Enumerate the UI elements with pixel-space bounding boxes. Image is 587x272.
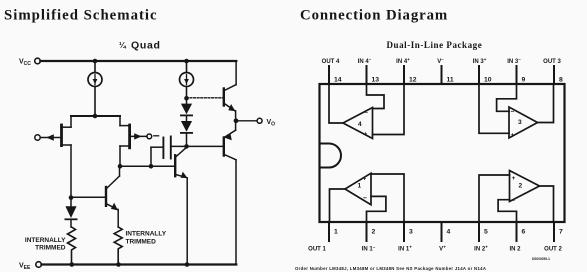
- pin 3 lead: [403, 222, 405, 241]
- svg-text:+: +: [512, 175, 516, 182]
- resistor R2 (internally trimmed): [114, 227, 122, 265]
- svg-text:OUT 2: OUT 2: [544, 247, 562, 253]
- op-amp U1 triangle: [345, 173, 371, 205]
- svg-text:3: 3: [409, 229, 413, 236]
- svg-text:–: –: [364, 110, 368, 117]
- svg-text:IN 1–: IN 1–: [362, 245, 376, 253]
- svg-text:–: –: [511, 109, 515, 116]
- svg-text:11: 11: [447, 77, 454, 84]
- pin 11 lead: [441, 66, 443, 84]
- svg-text:13: 13: [372, 77, 380, 84]
- node: R1-VEE rail junction: [70, 262, 75, 267]
- wire: J1 drain to D3: [70, 145, 72, 198]
- pin 1 lead: [328, 222, 330, 241]
- svg-text:3: 3: [518, 119, 522, 126]
- wire: output to VO terminal: [236, 120, 257, 122]
- svg-text:OUT 1: OUT 1: [308, 247, 326, 253]
- svg-text:–: –: [511, 198, 515, 205]
- svg-text:Dual-In-Line Package: Dual-In-Line Package: [387, 40, 483, 50]
- capacitor C1 (compensation): [151, 137, 171, 167]
- wire: U2 output to pin 7: [540, 186, 554, 222]
- node: tail junction: [93, 114, 98, 119]
- wire: pin 9 to U3 inverting input: [497, 84, 517, 111]
- svg-text:8: 8: [559, 77, 563, 84]
- pin 5 lead: [478, 222, 480, 241]
- svg-text:9: 9: [522, 77, 526, 84]
- terminal input IN-: [147, 134, 152, 139]
- svg-text:¼: ¼: [119, 41, 127, 50]
- wire: pin 3 to U1 non-inverting input: [371, 174, 404, 222]
- JFET J1 (non-inverting input): [40, 116, 71, 146]
- svg-text:4: 4: [447, 229, 451, 236]
- svg-text:INTERNALLY: INTERNALLY: [126, 231, 167, 238]
- svg-text:Quad: Quad: [131, 40, 161, 52]
- svg-text:IN 3–: IN 3–: [507, 57, 521, 65]
- node: I2-D1 junction: [184, 96, 189, 101]
- pin 13 lead: [366, 66, 368, 84]
- wire: U3 output to pin 8: [538, 84, 554, 123]
- JFET J2 (inverting input): [120, 116, 147, 148]
- svg-text:7: 7: [559, 229, 563, 236]
- diode D3: [65, 198, 76, 227]
- node: rail-I2 junction: [184, 59, 189, 64]
- svg-text:IN 4+: IN 4+: [396, 57, 410, 65]
- wire: D2 cathode / C1 / Q2 base net: [172, 145, 224, 147]
- package pin-1 notch: [320, 144, 342, 168]
- svg-text:6: 6: [522, 229, 526, 236]
- pin 7 lead: [553, 222, 555, 241]
- label: minus sign at inverting input: [154, 135, 159, 137]
- resistor R1 (internally trimmed): [68, 227, 76, 265]
- svg-text:IN 3+: IN 3+: [473, 57, 487, 65]
- svg-text:OUT 3: OUT 3: [543, 59, 561, 65]
- svg-text:IN 2: IN 2: [509, 247, 521, 253]
- op-amp U3 triangle: [509, 107, 538, 138]
- terminal VEE: [19, 262, 41, 271]
- svg-text:IN 4–: IN 4–: [358, 57, 372, 65]
- node: output junction: [234, 118, 239, 123]
- svg-text:Connection Diagram: Connection Diagram: [300, 8, 448, 24]
- wire: pin 6 to U2 inverting input: [498, 200, 516, 222]
- terminal VO: [257, 118, 275, 127]
- node: Q3 emitter / VEE rail junction: [185, 262, 190, 267]
- svg-text:V+: V+: [439, 245, 446, 253]
- pin 6 lead: [516, 222, 518, 241]
- wire: Q3 base line: [120, 165, 175, 167]
- wire: J2 drain down to Q3 base: [119, 146, 121, 166]
- op-amp U2 triangle: [510, 171, 540, 202]
- transistor Q2 (output PNP): [224, 121, 236, 265]
- node: rail-I1 junction: [93, 59, 98, 64]
- svg-text:5: 5: [484, 229, 488, 236]
- diode D1: [181, 98, 192, 115]
- package outline: [320, 84, 565, 222]
- pin 14 lead: [328, 66, 330, 84]
- svg-text:12: 12: [409, 77, 417, 84]
- svg-text:2: 2: [372, 229, 376, 236]
- current source I2: [180, 61, 194, 98]
- svg-text:Simplified Schematic: Simplified Schematic: [4, 8, 158, 24]
- svg-text:2: 2: [519, 183, 523, 190]
- svg-text:VEE: VEE: [19, 263, 31, 272]
- svg-text:+: +: [511, 132, 515, 139]
- wire: pin 5 to U2 non-inverting input: [479, 175, 510, 222]
- svg-text:TRIMMED: TRIMMED: [35, 245, 66, 252]
- svg-text:OUT 4: OUT 4: [322, 59, 340, 65]
- diode D2: [181, 115, 192, 146]
- svg-text:–: –: [363, 195, 367, 202]
- svg-text:DS009299-1: DS009299-1: [532, 257, 550, 261]
- wire: pin 2 to U1 inverting input: [367, 196, 386, 222]
- node: C1 tap junction: [149, 164, 154, 169]
- svg-text:IN 1+: IN 1+: [398, 245, 412, 253]
- pin 8 lead: [553, 66, 555, 84]
- svg-text:4: 4: [358, 121, 362, 128]
- transistor Q4 (current mirror NPN): [71, 166, 120, 227]
- svg-text:INTERNALLY: INTERNALLY: [25, 237, 66, 244]
- wire: U1 output to pin 1: [330, 189, 346, 222]
- terminal VCC: [19, 58, 40, 67]
- pin 12 lead: [403, 66, 405, 84]
- node: R2-VEE rail junction: [116, 262, 121, 267]
- transistor Q3 (second stage NPN): [175, 148, 187, 265]
- node: J2 drain / Q4 collector junction: [118, 164, 123, 169]
- svg-text:+: +: [363, 176, 367, 183]
- svg-text:VO: VO: [267, 119, 276, 128]
- svg-text:IN 2+: IN 2+: [474, 245, 488, 253]
- pin 2 lead: [366, 222, 368, 241]
- wire: diff pair tail bar: [71, 115, 120, 117]
- svg-text:1: 1: [334, 229, 338, 236]
- wire: VEE bottom rail: [41, 263, 236, 265]
- wire: pin 12 to U4 non-inverting input: [373, 84, 405, 135]
- pin 10 lead: [478, 66, 480, 84]
- wire: pin 13 to U4 inverting input: [367, 84, 385, 109]
- node: D2-C1-Q2 base junction: [184, 144, 189, 149]
- wire: Q1 base (dotted in scan): [187, 97, 224, 99]
- node: J1 drain / Q4 base junction: [69, 195, 74, 200]
- current source I1: [88, 61, 102, 116]
- wire: pin 10 to U3 non-inverting input: [479, 84, 509, 133]
- label: 1/4 Quad: [119, 40, 161, 52]
- svg-text:VCC: VCC: [19, 59, 31, 68]
- svg-text:V–: V–: [437, 57, 444, 65]
- svg-text:14: 14: [334, 77, 342, 84]
- svg-text:TRIMMED: TRIMMED: [126, 239, 157, 246]
- pin 9 lead: [516, 66, 518, 84]
- transistor Q1 (output NPN): [224, 61, 236, 121]
- svg-text:1: 1: [358, 183, 362, 190]
- terminal input IN+: [35, 135, 40, 140]
- svg-text:10: 10: [484, 77, 492, 84]
- pin 4 lead: [441, 222, 443, 241]
- op-amp U4 triangle: [343, 108, 373, 139]
- svg-text:+: +: [364, 131, 368, 138]
- wire: U4 output to pin 14: [329, 84, 343, 123]
- svg-text:Order Number LM348J, LM348M or: Order Number LM348J, LM348M or LM348N Se…: [295, 266, 486, 271]
- wire: VCC top rail: [40, 60, 236, 62]
